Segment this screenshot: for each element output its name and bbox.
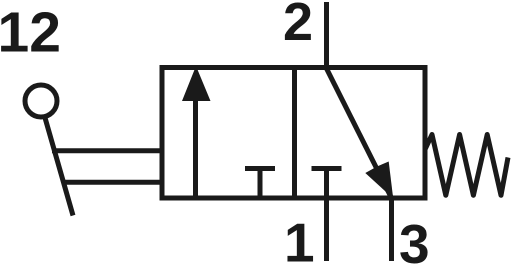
port 2 line	[324, 2, 329, 67]
port 1 line	[324, 198, 329, 261]
valve body outline (two position boxes)	[162, 68, 425, 199]
blocked port T (right square)	[312, 166, 342, 171]
svg-text:1: 1	[284, 212, 315, 267]
svg-text:2: 2	[283, 0, 313, 52]
blocked port T (left square)	[245, 166, 275, 171]
lever link top line	[52, 148, 164, 153]
svg-text:3: 3	[399, 213, 430, 267]
lever circle	[25, 85, 57, 117]
svg-text:12: 12	[0, 1, 61, 65]
flow path 2 to 3 diagonal (right square)	[326, 68, 392, 199]
lever arm	[45, 116, 74, 216]
return spring	[425, 135, 508, 196]
port 3 line	[389, 198, 394, 261]
divider between left and right position squares	[292, 66, 297, 200]
flow path arrow head	[365, 162, 393, 199]
lever link bottom line	[62, 180, 164, 185]
flow arrow shaft (left square)	[193, 92, 198, 198]
flow arrow head (left square)	[182, 66, 211, 101]
